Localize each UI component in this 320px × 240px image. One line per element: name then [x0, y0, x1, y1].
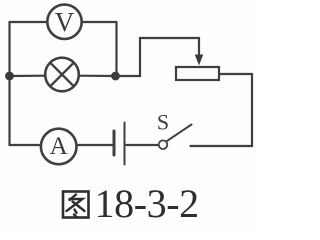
wire node A to lamp	[10, 75, 46, 78]
wire lamp to node B	[79, 75, 116, 78]
node A junction dot	[5, 72, 14, 81]
battery cell: long thin plate (right)	[124, 123, 126, 165]
node B junction dot	[111, 72, 120, 81]
svg-text:S: S	[157, 110, 169, 135]
op: voltmeter V1 circle	[47, 5, 81, 39]
rheostat wiper arrow head	[195, 55, 203, 66]
wire voltmeter to top-right corner	[82, 21, 117, 23]
lamp L1 cross stroke 2	[50, 63, 74, 87]
switch S lever	[167, 125, 192, 142]
svg-text:V: V	[55, 7, 75, 37]
rheostat R1 body	[176, 67, 219, 80]
svg-text:18-3-2: 18-3-2	[95, 181, 199, 226]
wire ammeter to battery	[77, 144, 113, 146]
wire left vertical (top-left corner down to bottom-left corner)	[8, 22, 10, 145]
battery cell: short thick plate (left)	[113, 131, 116, 155]
wire node B to rheostat feed corner	[116, 38, 200, 76]
caption: character 图 drawn as strokes	[63, 192, 89, 218]
wire battery to switch	[126, 144, 159, 146]
switch S pivot circle	[159, 140, 168, 149]
wire bottom-left corner to ammeter	[10, 144, 42, 146]
wire right side of voltmeter loop down to node B	[115, 22, 117, 74]
lamp L1 cross stroke 1	[50, 63, 74, 87]
ammeter A1 circle	[41, 129, 77, 165]
lamp L1 circle	[45, 58, 79, 92]
svg-text:A: A	[50, 133, 68, 160]
wire top-left horizontal to voltmeter	[10, 21, 48, 23]
wire rheostat to right corner	[191, 74, 253, 146]
